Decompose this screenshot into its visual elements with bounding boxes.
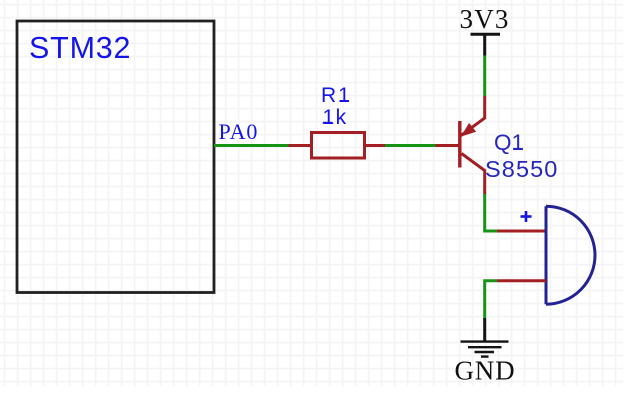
- svg-text:1k: 1k: [323, 106, 348, 129]
- resistor R1 right lead: [365, 144, 386, 147]
- svg-text:S8550: S8550: [485, 156, 558, 182]
- wire PA0 to R1 (green): [214, 144, 289, 147]
- svg-text:STM32: STM32: [29, 31, 131, 65]
- svg-text:Q1: Q1: [494, 130, 524, 155]
- emitter lead (red): [461, 96, 485, 136]
- wire Q1 base stub (red): [436, 144, 459, 147]
- svg-text:3V3: 3V3: [460, 4, 510, 34]
- resistor R1 left lead: [289, 144, 312, 147]
- svg-text:PA0: PA0: [219, 119, 259, 144]
- wire R1 to Q1 base (green): [385, 144, 436, 147]
- buzzer LS1 plus sign: [521, 211, 532, 222]
- buzzer top lead (red): [497, 230, 546, 233]
- IC STM32 body: [17, 21, 214, 293]
- buzzer LS1 body: [546, 206, 595, 304]
- resistor R1 body: [312, 133, 365, 159]
- wire buzzer to ground (green): [485, 281, 497, 318]
- power port 3V3: [460, 4, 510, 56]
- serif foot of 1 in R1: [340, 100, 350, 102]
- wire Q1 collector down (green): [485, 194, 497, 231]
- base bar: [458, 121, 461, 168]
- svg-text:GND: GND: [455, 356, 516, 386]
- collector lead (red): [462, 154, 485, 195]
- emitter arrow: [461, 123, 476, 137]
- serif foot of 1 in 1k: [323, 122, 333, 124]
- buzzer bottom lead (red): [497, 279, 546, 282]
- svg-text:R1: R1: [321, 84, 352, 107]
- wire to ground (black): [483, 318, 486, 342]
- wire 3V3 to Q1 emitter (green): [483, 56, 486, 97]
- serif foot of 1 in Q1: [513, 148, 523, 150]
- ground symbol: [461, 342, 509, 357]
- transistor Q1 (PNP S8550): [460, 96, 485, 195]
